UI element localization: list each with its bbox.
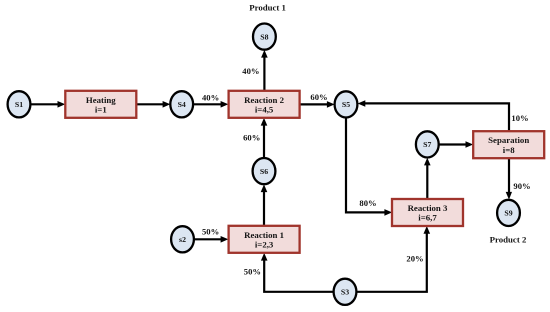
svg-text:Reaction 1: Reaction 1	[244, 230, 284, 240]
svg-text:i=8: i=8	[503, 145, 515, 155]
svg-text:i=4,5: i=4,5	[255, 104, 274, 114]
svg-text:10%: 10%	[511, 113, 528, 123]
svg-text:Product 2: Product 2	[490, 235, 527, 245]
svg-text:Heating: Heating	[86, 95, 116, 105]
wire Reaction 2 to S8	[261, 50, 268, 91]
node S8	[253, 23, 276, 49]
svg-text:50%: 50%	[202, 227, 219, 237]
wire Reaction 3 to S7	[424, 158, 431, 199]
unit Reaction 1 i=2,3	[229, 226, 300, 253]
wire Separation to S9	[506, 158, 512, 199]
wire S7 to Separation	[439, 141, 473, 148]
node S3	[334, 279, 357, 305]
svg-text:S9: S9	[504, 209, 512, 218]
unit Heating i=1	[65, 91, 136, 118]
node S7	[416, 131, 439, 157]
node S4	[170, 91, 193, 117]
wire S5 to Reaction 3	[346, 118, 392, 216]
node S1	[8, 91, 31, 117]
wire S6 to Reaction 2	[261, 118, 268, 158]
svg-text:50%: 50%	[244, 266, 261, 276]
svg-text:S5: S5	[342, 100, 350, 109]
svg-text:S4: S4	[178, 100, 186, 109]
svg-text:80%: 80%	[359, 198, 376, 208]
svg-text:20%: 20%	[406, 253, 423, 263]
svg-text:60%: 60%	[310, 92, 327, 102]
wire S3 to Reaction 1	[261, 253, 334, 292]
unit Separation i=8	[473, 131, 544, 158]
node s2	[171, 226, 194, 252]
wire Heating to S4	[136, 101, 170, 108]
svg-text:S6: S6	[260, 167, 268, 176]
wire S4 to Reaction 2	[193, 101, 228, 108]
wire S3 to Reaction 3	[357, 226, 431, 292]
svg-text:40%: 40%	[202, 93, 219, 103]
wire Reaction 2 to S5	[300, 101, 335, 108]
svg-text:90%: 90%	[513, 181, 530, 191]
svg-text:Separation: Separation	[488, 135, 529, 145]
svg-text:Reaction 2: Reaction 2	[244, 95, 284, 105]
svg-text:S1: S1	[15, 100, 23, 109]
wire s2 to Reaction 1	[194, 236, 228, 243]
svg-text:S7: S7	[423, 140, 431, 149]
node S6	[253, 158, 276, 184]
node S5	[335, 91, 358, 117]
node S9	[497, 200, 520, 226]
svg-text:Reaction 3: Reaction 3	[408, 203, 448, 213]
svg-text:60%: 60%	[243, 132, 260, 142]
wire S1 to Heating	[30, 101, 65, 108]
wire Reaction 1 to S6	[261, 184, 268, 225]
svg-text:s2: s2	[179, 235, 186, 244]
svg-text:i=1: i=1	[95, 104, 107, 114]
svg-text:40%: 40%	[242, 66, 259, 76]
svg-text:i=6,7: i=6,7	[418, 213, 437, 223]
svg-text:S8: S8	[260, 32, 268, 41]
wire Separation to S5	[358, 100, 509, 131]
unit Reaction 2 i=4,5	[229, 91, 300, 118]
svg-text:S3: S3	[341, 288, 349, 297]
unit Reaction 3 i=6,7	[392, 199, 463, 226]
svg-text:Product 1: Product 1	[249, 3, 286, 13]
svg-text:i=2,3: i=2,3	[255, 239, 274, 249]
